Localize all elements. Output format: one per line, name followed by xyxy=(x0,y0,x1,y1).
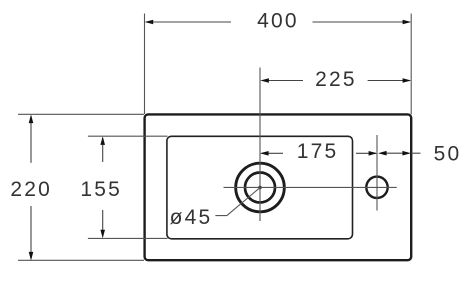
drain vertical centerline xyxy=(259,68,261,222)
svg-text:ø45: ø45 xyxy=(170,206,213,229)
extension line top-left (220 top) xyxy=(18,113,144,115)
dimension line 155 (vertical) xyxy=(100,136,105,238)
extension line 155 bottom xyxy=(88,237,168,239)
drain hole outer circle xyxy=(236,163,285,212)
dimension label 225 xyxy=(315,68,357,91)
svg-text:155: 155 xyxy=(80,178,122,201)
svg-text:175: 175 xyxy=(297,140,339,163)
faucet hole circle xyxy=(366,177,387,198)
svg-text:400: 400 xyxy=(257,9,299,32)
basin inner outline xyxy=(167,136,353,239)
drain center dot xyxy=(258,186,261,189)
dimension line 220 (vertical, left) xyxy=(29,115,34,261)
dimension label ø45 xyxy=(170,206,213,229)
svg-text:50: 50 xyxy=(434,142,462,165)
dimension label 175 xyxy=(297,140,339,163)
dimension line 50 xyxy=(378,151,421,156)
dimension label 155 xyxy=(80,178,122,201)
svg-text:220: 220 xyxy=(10,178,52,201)
sink outer outline xyxy=(145,114,412,260)
dimension label 220 xyxy=(10,178,52,201)
horizontal centerline through drain and faucet hole xyxy=(224,186,397,188)
dimension line 175 xyxy=(260,151,377,156)
drain hole inner circle (ø45) xyxy=(245,173,275,203)
extension line 400 left vertical xyxy=(144,14,146,115)
leader line for ø45 xyxy=(215,188,260,216)
extension line 155 top xyxy=(88,135,168,137)
dimension line 400 xyxy=(145,20,412,25)
svg-text:225: 225 xyxy=(315,68,357,91)
dimension label 50 xyxy=(434,142,462,165)
dimension line 225 xyxy=(260,78,411,83)
extension line right vertical (400/225) xyxy=(410,14,412,115)
dimension label 400 xyxy=(257,9,299,32)
faucet vertical centerline xyxy=(376,135,378,211)
extension line bottom-left (220 bottom) xyxy=(18,259,144,261)
